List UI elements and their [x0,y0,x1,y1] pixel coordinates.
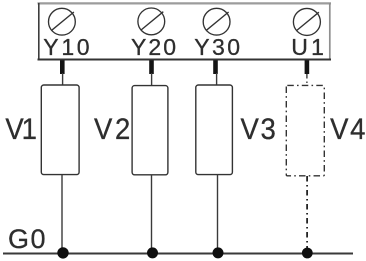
svg-text:V1: V1 [5,113,37,146]
svg-text:Y30: Y30 [194,34,240,60]
svg-text:Y10: Y10 [43,34,89,60]
svg-text:Y20: Y20 [131,34,176,60]
svg-text:U1: U1 [291,34,324,60]
svg-text:G0: G0 [8,224,46,254]
svg-text:V4: V4 [330,113,365,146]
svg-text:V2: V2 [94,113,130,146]
svg-text:V3: V3 [241,113,276,146]
